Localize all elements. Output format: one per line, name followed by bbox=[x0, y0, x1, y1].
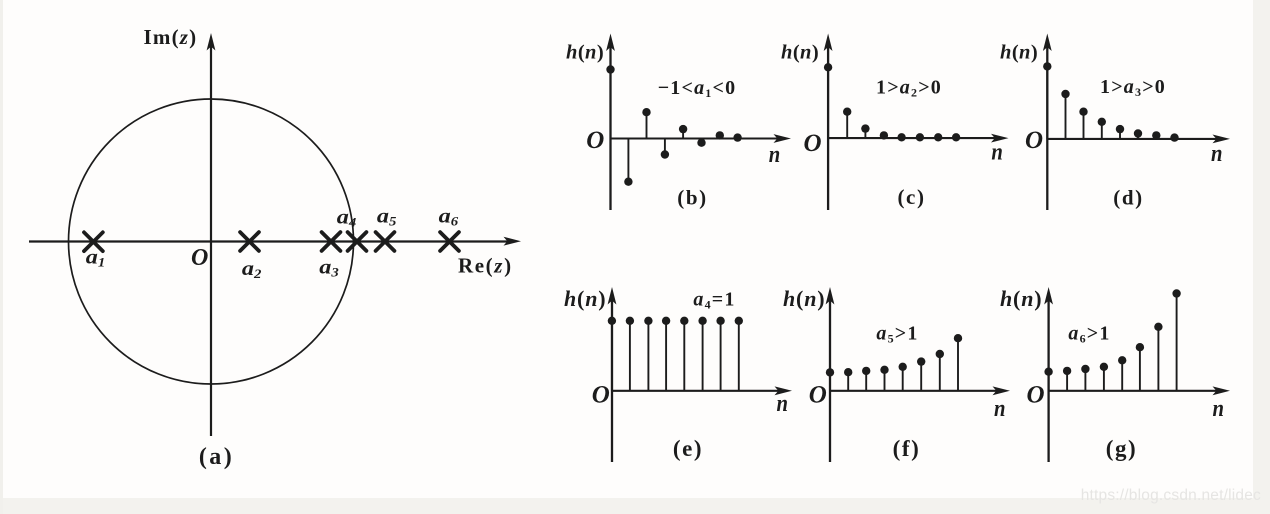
label Re(z) bbox=[458, 254, 513, 278]
panel (f) stem n=4 bbox=[899, 363, 907, 391]
svg-text:n: n bbox=[769, 142, 781, 168]
panel (e) stem n=4 bbox=[680, 317, 688, 391]
caption (a) bbox=[199, 444, 234, 470]
svg-text:O: O bbox=[586, 127, 604, 154]
label a1 bbox=[86, 247, 105, 270]
label a3 bbox=[319, 257, 339, 280]
panel (g) stem n=0 bbox=[1044, 368, 1052, 391]
panel (c) stem n=7 bbox=[952, 133, 960, 141]
svg-text:h(n): h(n) bbox=[783, 286, 825, 311]
svg-text:O: O bbox=[804, 130, 822, 157]
svg-text:(b): (b) bbox=[677, 186, 707, 210]
svg-text:(f): (f) bbox=[893, 436, 921, 461]
panel (b) stem n=7 bbox=[733, 133, 741, 141]
panel (e) label n bbox=[777, 391, 789, 417]
panel (b) cond -1<a1<0 bbox=[658, 77, 737, 100]
panel (b) stem n=2 bbox=[642, 108, 650, 139]
panel (c) stem n=4 bbox=[897, 133, 905, 141]
panel (b) stem n=6 bbox=[716, 131, 724, 139]
panel (d) stem n=0 bbox=[1043, 62, 1051, 139]
panel (c) stem n=3 bbox=[880, 131, 888, 139]
svg-text:(c): (c) bbox=[897, 185, 925, 209]
svg-text:(g): (g) bbox=[1106, 436, 1138, 461]
panel (g) stem n=5 bbox=[1136, 343, 1144, 391]
panel (g) stem n=3 bbox=[1100, 363, 1108, 391]
caption (c) bbox=[897, 185, 925, 209]
panel (d) label n bbox=[1211, 141, 1223, 167]
panel (e) stem n=1 bbox=[626, 317, 634, 391]
panel (c) horizontal axis n bbox=[828, 134, 1008, 143]
panel (g) horizontal axis n bbox=[1049, 386, 1230, 395]
caption (b) bbox=[677, 186, 707, 210]
panel (c) stem n=6 bbox=[934, 133, 942, 141]
panel (d) stem n=1 bbox=[1061, 90, 1069, 139]
panel (c) stem n=0 bbox=[824, 63, 832, 138]
panel (e) stem n=7 bbox=[735, 317, 743, 391]
panel (d) horizontal axis n bbox=[1047, 135, 1230, 144]
svg-text:O: O bbox=[191, 245, 208, 271]
svg-text:1>a2>0: 1>a2>0 bbox=[876, 77, 942, 100]
panel (d) stem n=3 bbox=[1098, 118, 1106, 139]
panel (g) stem n=6 bbox=[1154, 323, 1162, 391]
label Im(z) bbox=[144, 25, 198, 49]
panel (e) vertical axis h(n) bbox=[608, 287, 617, 462]
panel (c) label n bbox=[991, 140, 1003, 166]
panel (e) label O bbox=[592, 382, 610, 409]
panel (b) stem n=4 bbox=[679, 125, 687, 139]
panel (d) stem n=4 bbox=[1116, 125, 1124, 139]
svg-text:h(n): h(n) bbox=[566, 42, 604, 64]
panel (e) cond a4=1 bbox=[693, 289, 735, 312]
panel (b) stem n=1 bbox=[624, 139, 632, 186]
panel (d) cond 1>a3>0 bbox=[1100, 76, 1166, 99]
pole a5 cross bbox=[376, 232, 395, 251]
panel (d) label h(n) bbox=[1000, 42, 1038, 64]
svg-text:n: n bbox=[777, 391, 789, 417]
svg-text:n: n bbox=[991, 140, 1003, 166]
panel (e) label h(n) bbox=[564, 286, 606, 311]
panel (d) stem n=6 bbox=[1152, 131, 1160, 139]
caption (g) bbox=[1106, 436, 1138, 461]
panel (f) label n bbox=[994, 396, 1006, 422]
panel (e) stem n=6 bbox=[716, 317, 724, 391]
panel (f) stem n=6 bbox=[936, 350, 944, 391]
panel (d) label O bbox=[1025, 127, 1043, 154]
panel (b) stem n=5 bbox=[697, 139, 705, 147]
label O origin bbox=[191, 245, 208, 271]
panel (f) horizontal axis n bbox=[830, 386, 1010, 395]
panel (c) vertical axis h(n) bbox=[824, 34, 833, 211]
vertical axis Im bbox=[207, 33, 216, 436]
panel (e) stem n=2 bbox=[644, 317, 652, 391]
panel (g) label O bbox=[1027, 382, 1045, 409]
panel (f) stem n=7 bbox=[954, 334, 962, 391]
panel (d) stem n=5 bbox=[1134, 129, 1142, 139]
panel (f) stem n=1 bbox=[844, 368, 852, 391]
panel (b) label h(n) bbox=[566, 42, 604, 64]
pole a1 cross bbox=[84, 232, 103, 251]
panel (b) vertical axis h(n) bbox=[606, 34, 615, 211]
panel (b) stem n=0 bbox=[606, 65, 614, 138]
panel (d) stem n=2 bbox=[1079, 108, 1087, 139]
panel (d) vertical axis h(n) bbox=[1043, 34, 1052, 211]
pole a4 cross bbox=[348, 232, 367, 251]
svg-text:1>a3>0: 1>a3>0 bbox=[1100, 76, 1166, 99]
panel (f) stem n=2 bbox=[862, 367, 870, 391]
label a6 bbox=[439, 206, 459, 229]
label a5 bbox=[377, 206, 397, 229]
panel (c) stem n=1 bbox=[843, 108, 851, 139]
panel (f) vertical axis h(n) bbox=[826, 287, 835, 462]
svg-text:O: O bbox=[592, 382, 610, 409]
panel (b) horizontal axis n bbox=[611, 134, 792, 143]
svg-text:−1<a1<0: −1<a1<0 bbox=[658, 77, 737, 100]
panel (f) label h(n) bbox=[783, 286, 825, 311]
caption (f) bbox=[893, 436, 921, 461]
svg-text:O: O bbox=[1027, 382, 1045, 409]
panel (g) stem n=2 bbox=[1081, 365, 1089, 391]
caption (d) bbox=[1113, 186, 1143, 210]
panel (f) label O bbox=[809, 382, 827, 409]
label a2 bbox=[242, 258, 262, 281]
caption (e) bbox=[673, 436, 703, 461]
svg-text:h(n): h(n) bbox=[564, 286, 606, 311]
right paper band bbox=[1253, 0, 1270, 514]
panel (f) cond a5>1 bbox=[876, 323, 918, 346]
panel (g) vertical axis h(n) bbox=[1044, 287, 1053, 462]
panel (e) stem n=5 bbox=[698, 317, 706, 391]
svg-text:(d): (d) bbox=[1113, 186, 1143, 210]
panel (b) stem n=3 bbox=[661, 139, 669, 159]
pole a2 cross bbox=[240, 232, 259, 251]
svg-text:Re(z): Re(z) bbox=[458, 254, 513, 278]
svg-text:O: O bbox=[809, 382, 827, 409]
left paper sliver bbox=[0, 0, 3, 514]
horizontal axis Re bbox=[29, 237, 521, 246]
panel (g) stem n=1 bbox=[1063, 367, 1071, 391]
panel (c) label O bbox=[804, 130, 822, 157]
svg-text:(a): (a) bbox=[199, 444, 234, 470]
svg-text:O: O bbox=[1025, 127, 1043, 154]
panel (g) cond a6>1 bbox=[1068, 323, 1110, 346]
bottom paper band bbox=[0, 498, 1270, 514]
panel (c) cond 1>a2>0 bbox=[876, 77, 942, 100]
panel (e) horizontal axis n bbox=[612, 386, 792, 395]
pole a3 cross bbox=[322, 232, 341, 251]
panel (c) label h(n) bbox=[781, 42, 819, 64]
label a4 bbox=[337, 207, 357, 230]
svg-text:a4=1: a4=1 bbox=[693, 289, 735, 312]
panel (g) label n bbox=[1213, 396, 1225, 422]
unit circle bbox=[69, 99, 354, 384]
svg-text:a6>1: a6>1 bbox=[1068, 323, 1110, 346]
panel (d) stem n=7 bbox=[1170, 133, 1178, 141]
panel (e) stem n=0 bbox=[608, 317, 616, 391]
svg-text:n: n bbox=[1211, 141, 1223, 167]
panel (f) stem n=3 bbox=[880, 366, 888, 391]
svg-text:h(n): h(n) bbox=[1000, 286, 1042, 311]
panel (g) stem n=7 bbox=[1172, 289, 1180, 391]
panel (c) stem n=5 bbox=[916, 133, 924, 141]
panel (b) label n bbox=[769, 142, 781, 168]
svg-text:h(n): h(n) bbox=[1000, 42, 1038, 64]
svg-text:n: n bbox=[994, 396, 1006, 422]
svg-text:a5>1: a5>1 bbox=[876, 323, 918, 346]
panel (b) label O bbox=[586, 127, 604, 154]
svg-text:(e): (e) bbox=[673, 436, 703, 461]
watermark blog url bbox=[1081, 487, 1261, 504]
panel (e) stem n=3 bbox=[662, 317, 670, 391]
panel (f) stem n=5 bbox=[917, 357, 925, 390]
svg-text:https://blog.csdn.net/lidec: https://blog.csdn.net/lidec bbox=[1081, 487, 1261, 504]
svg-text:h(n): h(n) bbox=[781, 42, 819, 64]
panel (c) stem n=2 bbox=[861, 124, 869, 138]
svg-text:Im(z): Im(z) bbox=[144, 25, 198, 49]
panel (f) stem n=0 bbox=[826, 368, 834, 391]
panel (g) stem n=4 bbox=[1118, 356, 1126, 391]
pole a6 cross bbox=[440, 232, 459, 251]
panel (g) label h(n) bbox=[1000, 286, 1042, 311]
svg-text:n: n bbox=[1213, 396, 1225, 422]
